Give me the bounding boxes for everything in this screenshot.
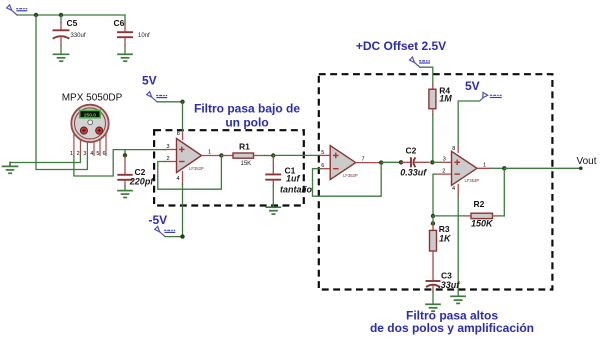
wire op3 output bbox=[492, 167, 504, 169]
op-amp U1:A power pin 8 bbox=[182, 132, 184, 140]
svg-text:1: 1 bbox=[208, 150, 211, 156]
svg-text:8: 8 bbox=[177, 131, 180, 137]
capacitor C2 220pf bbox=[118, 155, 154, 190]
svg-text:7: 7 bbox=[362, 157, 365, 163]
svg-text:1uf: 1uf bbox=[286, 173, 301, 183]
svg-text:LF353P: LF353P bbox=[189, 166, 204, 171]
capacitor C3 .33uf bbox=[427, 271, 461, 304]
wire Vout bbox=[504, 167, 581, 169]
wire 5V to op3 V+ bbox=[458, 101, 479, 147]
op-amp U1:B pin 5 lead bbox=[320, 154, 330, 156]
junction node C2 tap bbox=[123, 153, 127, 157]
op-amp U1:B triangle bbox=[330, 146, 356, 180]
capacitor C6 bbox=[114, 15, 151, 54]
power flag 5V op1 bbox=[147, 92, 168, 102]
svg-text:1K: 1K bbox=[439, 233, 452, 243]
svg-text:4: 4 bbox=[90, 151, 93, 157]
svg-text:5V: 5V bbox=[465, 79, 480, 93]
wire feedback op1 bbox=[158, 156, 222, 190]
junction node R3 top bbox=[431, 221, 435, 225]
svg-text:C2: C2 bbox=[406, 146, 417, 156]
svg-text:-5V: -5V bbox=[149, 213, 168, 227]
wire sensor pin2 to ground bbox=[10, 156, 80, 163]
junction node top rail / C5 bbox=[59, 13, 63, 17]
wire sensor pin1 (Vout) to op-amp U1:A input bbox=[74, 150, 166, 176]
wire op2 output to C2 bbox=[381, 161, 401, 163]
svg-text:8: 8 bbox=[452, 146, 455, 152]
junction node -5V bbox=[180, 234, 184, 238]
svg-text:R2: R2 bbox=[474, 199, 485, 209]
power flag +DC offset bbox=[410, 57, 431, 67]
power flag +5V top-left bbox=[7, 5, 28, 15]
svg-text:3: 3 bbox=[443, 157, 446, 163]
op-amp U1:A output pin 1 bbox=[202, 155, 222, 157]
junction node top rail / V1 bbox=[34, 13, 38, 17]
svg-text:6: 6 bbox=[103, 151, 106, 157]
svg-text:2: 2 bbox=[77, 151, 80, 157]
svg-text:C6: C6 bbox=[114, 18, 125, 28]
op-amp U2:A output pin 1 bbox=[477, 167, 492, 169]
op-amp U1:B output pin 7 bbox=[356, 162, 382, 164]
svg-text:4: 4 bbox=[177, 176, 180, 182]
svg-text:2: 2 bbox=[167, 156, 170, 162]
wire between R2/R3 nodes bbox=[432, 216, 434, 223]
resistor R4 bbox=[429, 85, 452, 115]
ground far left bbox=[3, 163, 18, 174]
svg-text:0.33uf: 0.33uf bbox=[400, 168, 427, 178]
op-amp U1:A triangle bbox=[177, 139, 202, 173]
op-amp U1:B pin 6 lead bbox=[320, 168, 330, 170]
ground under op3 bbox=[451, 296, 465, 303]
junction node R2 left bbox=[431, 214, 435, 218]
svg-text:250.0: 250.0 bbox=[84, 113, 96, 119]
dashed box filter 2 bbox=[319, 74, 553, 289]
svg-text:1: 1 bbox=[70, 151, 73, 157]
svg-text:+DC Offset 2.5V: +DC Offset 2.5V bbox=[356, 39, 446, 53]
wire top rail y=15 bbox=[17, 14, 125, 16]
svg-text:.33uf: .33uf bbox=[438, 280, 460, 290]
svg-text:MPX 5050DP: MPX 5050DP bbox=[62, 93, 123, 104]
sensor pin numbers 1-6 bbox=[70, 151, 106, 157]
sensor body MPX5050DP bbox=[71, 105, 108, 142]
op-amp U2:A pin 2 lead bbox=[437, 173, 452, 175]
resistor R2 bbox=[433, 199, 504, 228]
svg-text:2: 2 bbox=[442, 168, 445, 174]
wire op3 V- to ground bbox=[457, 196, 459, 296]
svg-text:Vout: Vout bbox=[577, 156, 597, 167]
power flag -5V bbox=[155, 226, 176, 236]
svg-text:R1: R1 bbox=[239, 142, 250, 152]
wire op3 inverting branch bbox=[433, 174, 437, 216]
svg-text:3: 3 bbox=[167, 144, 170, 150]
svg-text:C3: C3 bbox=[441, 271, 452, 281]
svg-text:de dos polos y amplificación: de dos polos y amplificación bbox=[370, 321, 534, 335]
ground under C6 bbox=[118, 54, 132, 61]
terminal node Vout bbox=[579, 167, 583, 171]
ground under C3 bbox=[426, 304, 440, 311]
ground under C2 bbox=[118, 191, 132, 198]
svg-text:5: 5 bbox=[96, 151, 99, 157]
op-amp U2:A pin 3 lead bbox=[432, 161, 441, 163]
wire op1 V- to -5V bbox=[182, 185, 184, 237]
op-amp U1:A pin 2 lead bbox=[165, 161, 177, 163]
capacitor C1 1uf tantalio bbox=[266, 156, 312, 207]
op-amp U2:A power pin 4 bbox=[457, 185, 459, 197]
wire R1 to C1 node bbox=[265, 155, 274, 157]
svg-text:5V: 5V bbox=[142, 74, 157, 88]
junction node before C2 bbox=[399, 160, 403, 164]
power flag 5V op3 bbox=[480, 92, 502, 101]
ground under C1 bbox=[266, 207, 280, 214]
svg-text:4: 4 bbox=[452, 186, 455, 192]
junction node op1 output bbox=[219, 153, 223, 157]
ground under C5 bbox=[54, 54, 69, 61]
junction node 5V corner bbox=[180, 100, 184, 104]
wire op1 V+ vertical bbox=[182, 102, 184, 132]
junction node op3 + input bbox=[430, 160, 434, 164]
sensor pins 1-6 bbox=[74, 133, 106, 156]
op-amp U1:A pin 3 lead bbox=[165, 149, 177, 151]
resistor R1 bbox=[221, 142, 264, 168]
wire R4 to op3 + node bbox=[432, 115, 434, 161]
wire 5V to op1 V+ bbox=[157, 101, 183, 103]
svg-text:Filtro pasa bajo de: Filtro pasa bajo de bbox=[194, 102, 300, 116]
svg-text:tantalio: tantalio bbox=[280, 185, 313, 195]
svg-text:un polo: un polo bbox=[225, 116, 268, 130]
capacitor C5 bbox=[54, 15, 86, 54]
wire -5V flag to rail bbox=[165, 236, 183, 238]
svg-text:220pf: 220pf bbox=[129, 176, 155, 186]
wire feedback op3 bbox=[503, 168, 505, 216]
svg-text:15K: 15K bbox=[241, 161, 252, 167]
wire +DC to R4 bbox=[420, 67, 433, 84]
svg-text:1: 1 bbox=[483, 162, 486, 168]
svg-text:C5: C5 bbox=[67, 18, 78, 28]
svg-text:1M: 1M bbox=[439, 94, 452, 104]
resistor R3 bbox=[430, 223, 453, 280]
op-amp U2:A power pin 8 bbox=[457, 147, 459, 153]
wire signal to op2 pin5 bbox=[273, 154, 320, 156]
capacitor C2 0.33uf (series) bbox=[400, 146, 429, 178]
svg-text:330uf: 330uf bbox=[71, 33, 86, 39]
wire V1 vertical from top rail to sensor pin 3 bbox=[36, 15, 87, 170]
dashed box filter 1 bbox=[154, 130, 304, 205]
op-amp U2:A triangle bbox=[452, 151, 478, 185]
svg-text:6: 6 bbox=[321, 163, 324, 169]
wire feedback op2 bbox=[313, 163, 382, 197]
svg-text:5: 5 bbox=[321, 150, 324, 156]
svg-text:LF353P: LF353P bbox=[343, 173, 358, 178]
svg-text:3: 3 bbox=[83, 151, 86, 157]
svg-text:150K: 150K bbox=[471, 218, 494, 228]
svg-text:10nf: 10nf bbox=[138, 33, 150, 39]
junction node op2 output bbox=[379, 160, 383, 164]
junction node op3 output bbox=[502, 166, 506, 170]
wire stub to C2 bbox=[124, 150, 126, 154]
op-amp U1:A power pin 4 bbox=[182, 172, 184, 185]
junction node C1 / signal bbox=[271, 153, 275, 157]
svg-text:LF353P: LF353P bbox=[465, 178, 480, 183]
